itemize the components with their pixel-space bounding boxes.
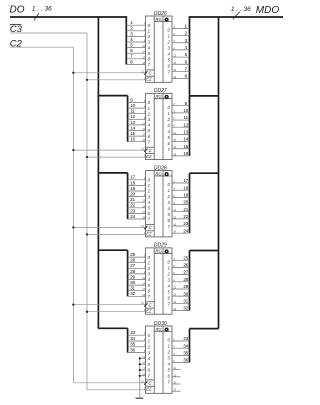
svg-text:1 . . 36: 1 . . 36 — [231, 6, 251, 13]
svg-text:11: 11 — [141, 301, 144, 305]
svg-text:15: 15 — [183, 144, 188, 149]
svg-text:3: 3 — [168, 123, 171, 128]
svg-text:13: 13 — [142, 44, 145, 48]
svg-text:18: 18 — [142, 293, 145, 297]
svg-text:17: 17 — [183, 178, 188, 183]
svg-text:3: 3 — [148, 272, 151, 277]
svg-text:6: 6 — [148, 368, 151, 373]
svg-text:15: 15 — [173, 215, 176, 219]
svg-text:6: 6 — [148, 57, 151, 62]
svg-text:2: 2 — [147, 345, 151, 350]
svg-text:8: 8 — [130, 59, 133, 64]
svg-text:1: 1 — [130, 20, 133, 25]
svg-text:1: 1 — [168, 111, 171, 116]
svg-text:3: 3 — [148, 350, 151, 355]
svg-text:29: 29 — [183, 284, 188, 289]
svg-text:28: 28 — [130, 269, 135, 274]
svg-text:2: 2 — [167, 350, 171, 355]
svg-text:RG: RG — [155, 249, 162, 254]
svg-text:35: 35 — [183, 350, 188, 355]
svg-text:4: 4 — [130, 37, 133, 42]
svg-text:1: 1 — [148, 260, 151, 265]
svg-text:EZ: EZ — [146, 309, 152, 314]
svg-text:5: 5 — [148, 283, 151, 288]
svg-text:C: C — [149, 302, 153, 307]
svg-text:15: 15 — [173, 373, 176, 377]
svg-text:7: 7 — [148, 139, 151, 144]
svg-text:2: 2 — [167, 117, 171, 122]
svg-text:6: 6 — [168, 218, 171, 223]
svg-text:7: 7 — [148, 217, 151, 222]
svg-text:13: 13 — [142, 276, 145, 280]
svg-text:19: 19 — [173, 388, 176, 392]
svg-text:14: 14 — [142, 361, 145, 365]
svg-text:36: 36 — [183, 358, 188, 363]
svg-text:1: 1 — [148, 29, 151, 34]
svg-text:6: 6 — [168, 374, 171, 379]
svg-text:14: 14 — [183, 137, 188, 142]
svg-text:26: 26 — [183, 263, 188, 268]
svg-text:4: 4 — [148, 356, 151, 361]
svg-text:30: 30 — [183, 291, 188, 296]
svg-text:16: 16 — [183, 151, 188, 156]
svg-text:20: 20 — [183, 200, 188, 205]
svg-text:31: 31 — [130, 286, 135, 291]
svg-text:3: 3 — [148, 194, 151, 199]
svg-text:6: 6 — [168, 64, 171, 69]
svg-text:18: 18 — [142, 138, 145, 142]
svg-text:C: C — [149, 71, 153, 76]
svg-text:17: 17 — [142, 210, 145, 214]
svg-text:EZ: EZ — [146, 77, 152, 82]
svg-text:5: 5 — [168, 212, 171, 217]
svg-text:5: 5 — [185, 52, 188, 57]
svg-text:16: 16 — [173, 145, 176, 149]
svg-text:11: 11 — [184, 115, 189, 120]
svg-text:4: 4 — [168, 206, 171, 211]
svg-text:6: 6 — [185, 59, 188, 64]
svg-text:14: 14 — [142, 282, 145, 286]
svg-text:14: 14 — [130, 125, 135, 130]
svg-text:7: 7 — [168, 70, 171, 75]
svg-text:MDO: MDO — [256, 5, 280, 16]
svg-text:25: 25 — [183, 255, 188, 260]
svg-text:6: 6 — [148, 288, 151, 293]
svg-text:2: 2 — [130, 26, 133, 31]
svg-text:2: 2 — [185, 31, 188, 36]
svg-text:27: 27 — [183, 270, 188, 275]
svg-text:EZ: EZ — [146, 387, 152, 392]
svg-text:0: 0 — [168, 28, 171, 33]
svg-text:18: 18 — [142, 61, 145, 65]
svg-text:27: 27 — [130, 263, 135, 268]
svg-text:15: 15 — [173, 138, 176, 142]
svg-text:5: 5 — [148, 128, 151, 133]
svg-text:1: 1 — [148, 183, 151, 188]
svg-text:4: 4 — [168, 283, 171, 288]
svg-text:4: 4 — [185, 45, 188, 50]
svg-text:2: 2 — [147, 266, 151, 271]
svg-text:12: 12 — [173, 285, 176, 289]
svg-text:34: 34 — [183, 343, 188, 348]
svg-text:15: 15 — [173, 61, 176, 65]
svg-text:32: 32 — [183, 306, 188, 311]
svg-text:19: 19 — [173, 230, 176, 234]
svg-text:6: 6 — [168, 141, 171, 146]
svg-text:17: 17 — [130, 175, 135, 180]
svg-text:RG: RG — [155, 94, 162, 99]
svg-text:5: 5 — [168, 58, 171, 63]
svg-text:15: 15 — [130, 131, 135, 136]
svg-text:23: 23 — [130, 208, 135, 213]
svg-text:4: 4 — [148, 277, 151, 282]
svg-text:5: 5 — [148, 362, 151, 367]
svg-text:1 . . 36: 1 . . 36 — [32, 6, 52, 13]
svg-text:19: 19 — [130, 186, 135, 191]
svg-text:1: 1 — [168, 34, 171, 39]
svg-text:13: 13 — [130, 120, 135, 125]
svg-text:12: 12 — [130, 114, 135, 119]
svg-text:5: 5 — [168, 368, 171, 373]
svg-text:EZ: EZ — [146, 231, 152, 236]
svg-text:1: 1 — [168, 265, 171, 270]
svg-text:17: 17 — [142, 287, 145, 291]
svg-text:0: 0 — [168, 105, 171, 110]
svg-text:7: 7 — [168, 224, 171, 229]
svg-text:5: 5 — [168, 289, 171, 294]
svg-text:10: 10 — [183, 108, 188, 113]
svg-text:RG: RG — [155, 327, 162, 332]
svg-text:9: 9 — [130, 97, 133, 102]
svg-text:0: 0 — [148, 333, 151, 338]
svg-text:18: 18 — [183, 185, 188, 190]
svg-text:16: 16 — [173, 300, 176, 304]
svg-text:11: 11 — [141, 379, 144, 383]
svg-text:0: 0 — [148, 23, 151, 28]
svg-text:5: 5 — [148, 206, 151, 211]
svg-text:7: 7 — [168, 147, 171, 152]
svg-text:19: 19 — [173, 307, 176, 311]
svg-text:13: 13 — [142, 355, 145, 359]
svg-text:19: 19 — [173, 75, 176, 79]
svg-text:1: 1 — [168, 344, 171, 349]
svg-text:32: 32 — [130, 291, 135, 296]
svg-text:33: 33 — [183, 336, 188, 341]
svg-text:7: 7 — [148, 374, 151, 379]
svg-text:2: 2 — [147, 111, 151, 116]
svg-text:2: 2 — [167, 271, 171, 276]
svg-text:12: 12 — [173, 131, 176, 135]
svg-text:22: 22 — [183, 214, 188, 219]
svg-text:21: 21 — [130, 197, 135, 202]
svg-text:6: 6 — [148, 134, 151, 139]
svg-text:11: 11 — [141, 147, 144, 151]
svg-text:7: 7 — [168, 301, 171, 306]
svg-text:16: 16 — [173, 223, 176, 227]
svg-text:7: 7 — [148, 62, 151, 67]
svg-text:6: 6 — [168, 295, 171, 300]
svg-text:10: 10 — [130, 103, 135, 108]
svg-text:19: 19 — [173, 152, 176, 156]
svg-text:11: 11 — [130, 109, 135, 114]
svg-text:11: 11 — [141, 224, 144, 228]
svg-text:6: 6 — [148, 211, 151, 216]
svg-text:2: 2 — [147, 189, 151, 194]
svg-text:3: 3 — [168, 200, 171, 205]
svg-text:24: 24 — [130, 214, 135, 219]
svg-text:16: 16 — [173, 68, 176, 72]
svg-text:RG: RG — [155, 17, 162, 22]
svg-text:4: 4 — [168, 362, 171, 367]
svg-text:3: 3 — [148, 117, 151, 122]
svg-text:C: C — [149, 225, 153, 230]
svg-text:33: 33 — [130, 330, 135, 335]
svg-text:12: 12 — [173, 208, 176, 212]
svg-text:0: 0 — [148, 178, 151, 183]
svg-text:17: 17 — [142, 367, 145, 371]
svg-text:17: 17 — [142, 55, 145, 59]
svg-text:3: 3 — [185, 38, 188, 43]
svg-text:1: 1 — [168, 188, 171, 193]
svg-text:12: 12 — [173, 366, 176, 370]
svg-text:2: 2 — [147, 34, 151, 39]
svg-text:0: 0 — [148, 255, 151, 260]
svg-text:18: 18 — [142, 372, 145, 376]
svg-text:RG: RG — [155, 171, 162, 176]
svg-text:C2: C2 — [10, 39, 23, 50]
svg-text:30: 30 — [130, 280, 135, 285]
svg-text:14: 14 — [142, 127, 145, 131]
svg-text:7: 7 — [148, 294, 151, 299]
svg-text:18: 18 — [142, 216, 145, 220]
svg-text:16: 16 — [130, 137, 135, 142]
svg-text:2: 2 — [167, 194, 171, 199]
svg-text:12: 12 — [173, 54, 176, 58]
svg-text:4: 4 — [168, 129, 171, 134]
svg-text:5: 5 — [168, 135, 171, 140]
svg-text:0: 0 — [148, 100, 151, 105]
svg-text:1: 1 — [148, 339, 151, 344]
svg-text:16: 16 — [173, 381, 176, 385]
svg-text:24: 24 — [183, 228, 188, 233]
svg-text:21: 21 — [183, 207, 188, 212]
svg-text:4: 4 — [148, 45, 151, 50]
svg-text:3: 3 — [168, 46, 171, 51]
svg-text:4: 4 — [148, 200, 151, 205]
svg-text:3: 3 — [130, 31, 133, 36]
svg-text:3: 3 — [168, 277, 171, 282]
svg-text:35: 35 — [130, 342, 135, 347]
svg-text:34: 34 — [130, 336, 135, 341]
svg-text:25: 25 — [130, 252, 135, 257]
svg-text:4: 4 — [168, 52, 171, 57]
svg-text:13: 13 — [142, 199, 145, 203]
svg-text:5: 5 — [130, 43, 133, 48]
svg-text:23: 23 — [183, 221, 188, 226]
svg-text:18: 18 — [130, 180, 135, 185]
svg-text:0: 0 — [168, 259, 171, 264]
svg-text:29: 29 — [130, 274, 135, 279]
svg-text:20: 20 — [130, 192, 135, 197]
svg-text:15: 15 — [173, 293, 176, 297]
svg-text:28: 28 — [183, 277, 188, 282]
svg-text:0: 0 — [168, 182, 171, 187]
svg-text:3: 3 — [168, 356, 171, 361]
svg-text:14: 14 — [142, 204, 145, 208]
svg-text:0: 0 — [168, 338, 171, 343]
svg-text:C: C — [149, 381, 153, 386]
svg-text:26: 26 — [130, 258, 135, 263]
svg-text:4: 4 — [148, 123, 151, 128]
svg-text:DO: DO — [10, 5, 25, 16]
svg-text:C3: C3 — [10, 24, 23, 35]
svg-text:7: 7 — [168, 380, 171, 385]
svg-text:3: 3 — [148, 40, 151, 45]
svg-text:6: 6 — [130, 48, 133, 53]
svg-text:13: 13 — [142, 121, 145, 125]
svg-text:9: 9 — [185, 101, 188, 106]
svg-text:13: 13 — [183, 129, 188, 134]
svg-text:17: 17 — [142, 133, 145, 137]
svg-text:31: 31 — [183, 298, 188, 303]
svg-text:36: 36 — [130, 348, 135, 353]
svg-text:11: 11 — [141, 69, 144, 73]
svg-text:2: 2 — [167, 40, 171, 45]
svg-text:14: 14 — [142, 50, 145, 54]
svg-text:7: 7 — [185, 67, 188, 72]
svg-text:C: C — [149, 148, 153, 153]
svg-text:EZ: EZ — [146, 154, 152, 159]
svg-text:8: 8 — [185, 74, 188, 79]
svg-text:19: 19 — [183, 192, 188, 197]
svg-text:1: 1 — [148, 106, 151, 111]
svg-text:12: 12 — [183, 122, 188, 127]
svg-text:1: 1 — [185, 24, 188, 29]
svg-text:5: 5 — [148, 51, 151, 56]
svg-text:7: 7 — [130, 54, 133, 59]
svg-text:22: 22 — [130, 203, 135, 208]
